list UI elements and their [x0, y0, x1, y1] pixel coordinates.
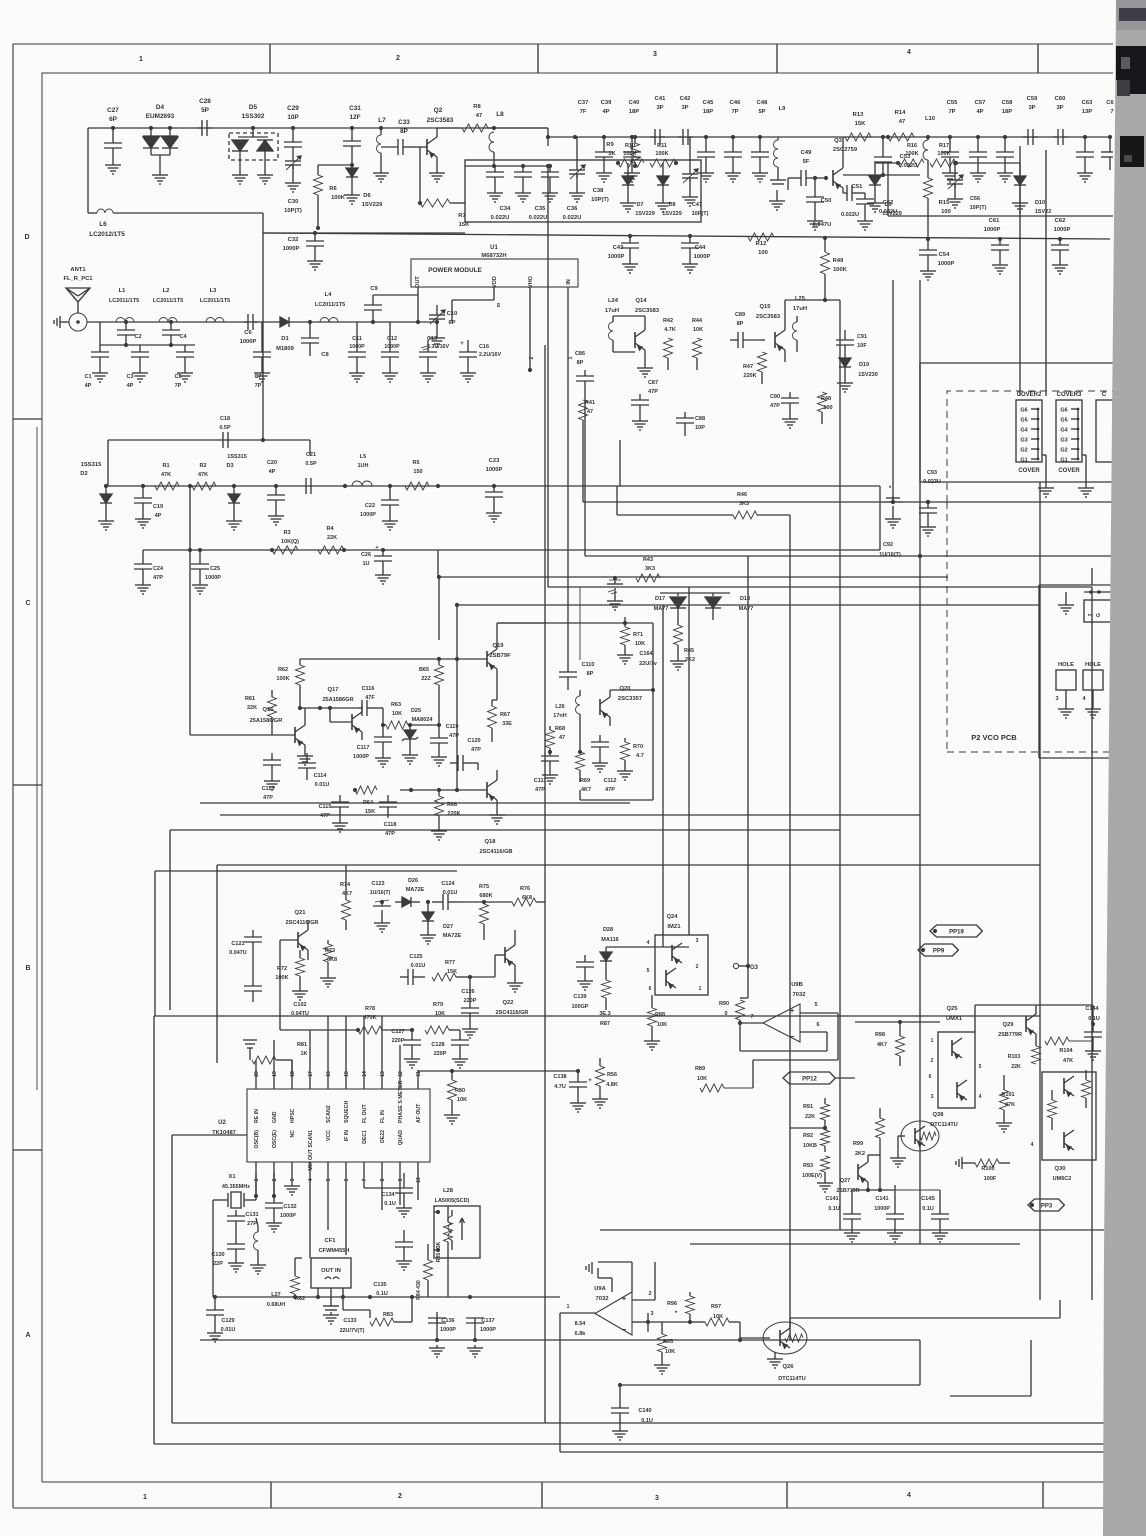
wire vert x155: [154, 871, 156, 1016]
svg-text:4.7U: 4.7U: [554, 1084, 566, 1090]
inner VCO solid box: [1039, 584, 1113, 586]
svg-text:MA72E: MA72E: [406, 887, 425, 893]
capacitor C49 series mid: [788, 177, 801, 179]
svg-text:MIX OUT SCAN1: MIX OUT SCAN1: [308, 1130, 314, 1171]
svg-text:C6: C6: [244, 330, 252, 336]
svg-text:C6: C6: [1106, 100, 1114, 106]
svg-text:C61: C61: [989, 218, 1000, 224]
svg-text:PP19: PP19: [949, 929, 964, 935]
wire C92 feed vertical: [892, 280, 894, 502]
svg-text:1000P: 1000P: [984, 227, 1001, 233]
svg-text:VDD: VDD: [492, 276, 498, 288]
svg-text:0.01U: 0.01U: [315, 782, 330, 788]
wire vco vertical right: [1091, 568, 1093, 585]
svg-text:0.1U: 0.1U: [828, 1206, 840, 1212]
top ruler divider ticks: [269, 44, 271, 73]
svg-text:R17: R17: [939, 143, 949, 149]
capacitor C4: [169, 320, 173, 324]
capacitor C60 series: [1053, 136, 1058, 138]
svg-text:3K3: 3K3: [645, 566, 655, 572]
wire big box bottom y1444: [154, 1443, 1104, 1445]
wire vert x217 box left: [216, 865, 218, 1063]
wire squelch rails: [382, 1029, 412, 1031]
svg-text:1000P: 1000P: [280, 1213, 296, 1219]
svg-text:D6: D6: [363, 193, 371, 199]
svg-text:2K2: 2K2: [855, 1151, 865, 1157]
svg-text:5: 5: [979, 1064, 982, 1070]
svg-text:+: +: [588, 1078, 592, 1084]
U2 pin3 ground: [291, 1183, 293, 1186]
svg-text:10: 10: [416, 1177, 422, 1183]
svg-text:R104: R104: [1059, 1048, 1073, 1054]
wire Q27 R99 link: [868, 1154, 880, 1156]
svg-text:G2: G2: [1060, 448, 1067, 454]
svg-text:UMX1: UMX1: [946, 1016, 963, 1022]
svg-text:6P: 6P: [109, 116, 118, 123]
capacitor C25: [199, 550, 201, 564]
svg-text:15: 15: [344, 1071, 350, 1077]
wire vert x689: [688, 587, 690, 935]
capacitor C22: [389, 486, 391, 500]
wire vert x545 long: [544, 345, 546, 623]
U2 pin 7 bottom: [363, 1162, 365, 1188]
scanner gray band at right edge: [1103, 0, 1146, 1536]
wire y1071 R80 C138 rail: [418, 1070, 578, 1072]
svg-text:6P: 6P: [448, 320, 455, 326]
svg-text:R5: R5: [412, 460, 419, 466]
capacitor C32: [314, 233, 316, 241]
svg-text:HOLE: HOLE: [1058, 662, 1074, 668]
svg-text:5P: 5P: [201, 107, 210, 114]
svg-text:R96: R96: [667, 1301, 677, 1307]
wire R6 top: [318, 164, 352, 166]
resistor R49: [823, 236, 827, 240]
svg-text:47P: 47P: [770, 403, 780, 409]
svg-text:R99: R99: [853, 1141, 863, 1147]
wire U9B loop: [753, 1059, 838, 1061]
svg-text:100F: 100F: [984, 1176, 997, 1182]
wire horiz y871: [155, 870, 457, 872]
svg-text:D2: D2: [80, 471, 87, 477]
svg-text:C1: C1: [84, 374, 91, 380]
wire vert x583: [582, 432, 584, 502]
wire bus y486 right tail: [619, 440, 621, 486]
gray band darker top area: [1116, 0, 1146, 30]
U2 pin 19 top: [273, 1040, 275, 1089]
svg-text:1000P: 1000P: [486, 467, 503, 473]
inductor L2: [159, 318, 177, 323]
resistor R9: [547, 137, 549, 146]
capacitor C48: [758, 135, 762, 139]
svg-text:L3: L3: [210, 288, 218, 294]
svg-text:C55: C55: [947, 100, 958, 106]
svg-text:10KB: 10KB: [803, 1143, 817, 1149]
svg-text:D19: D19: [859, 362, 869, 368]
svg-text:10P: 10P: [287, 114, 299, 121]
svg-text:1000P: 1000P: [353, 754, 369, 760]
svg-text:0.1U: 0.1U: [384, 1201, 396, 1207]
svg-text:2SC3583: 2SC3583: [427, 117, 454, 124]
wire big box x154: [153, 1016, 155, 1444]
svg-text:5P: 5P: [758, 109, 765, 115]
svg-text:C57: C57: [975, 100, 986, 106]
capacitor C11: [356, 322, 358, 352]
capacitor bank box C34 C35 C36: [465, 160, 701, 222]
capacitor C42 series: [678, 136, 683, 138]
svg-text:OUT IN: OUT IN: [321, 1268, 341, 1274]
svg-text:IF IN: IF IN: [344, 1130, 350, 1141]
svg-text:3: 3: [650, 1311, 653, 1317]
svg-text:100: 100: [758, 250, 768, 256]
svg-text:C42: C42: [680, 96, 691, 102]
svg-text:C18: C18: [220, 416, 230, 422]
svg-text:25A1586GR: 25A1586GR: [322, 697, 353, 703]
wire bottom rails: [619, 1384, 621, 1386]
svg-text:C25: C25: [210, 566, 220, 572]
svg-text:R6: R6: [329, 186, 337, 192]
svg-text:U9A: U9A: [594, 1286, 606, 1292]
svg-text:0.01U: 0.01U: [221, 1327, 236, 1333]
solid box around COVER connectors: [920, 363, 1113, 482]
bottom ruler divider ticks: [270, 1482, 272, 1508]
svg-text:COVER: COVER: [1058, 468, 1080, 474]
svg-text:LC2011/1T5: LC2011/1T5: [315, 302, 345, 308]
svg-text:2: 2: [1088, 613, 1094, 616]
svg-text:G4: G4: [1020, 428, 1028, 434]
svg-text:10P(T): 10P(T): [284, 208, 302, 214]
svg-text:C115: C115: [319, 804, 332, 810]
wire feedback line y440: [108, 439, 310, 441]
U2 pin 4 bottom: [309, 1162, 311, 1258]
svg-text:C16: C16: [479, 344, 489, 350]
wire COVER3 ground: [1082, 454, 1086, 456]
svg-text:C110: C110: [582, 662, 595, 668]
svg-text:3P: 3P: [681, 105, 688, 111]
svg-text:GND: GND: [272, 1111, 278, 1123]
resistor R15: [927, 172, 929, 178]
svg-text:Q20: Q20: [620, 686, 631, 692]
svg-text:G1: G1: [1020, 458, 1027, 464]
svg-text:R46: R46: [737, 492, 747, 498]
svg-text:C23: C23: [489, 458, 500, 464]
wire U1 IN down: [567, 287, 569, 390]
resistor R7: [420, 199, 450, 207]
svg-text:33E: 33E: [502, 721, 512, 727]
svg-text:D7: D7: [636, 202, 643, 208]
svg-text:C132: C132: [283, 1204, 296, 1210]
svg-text:POWER MODULE: POWER MODULE: [428, 267, 482, 274]
svg-text:Q18: Q18: [485, 839, 497, 845]
svg-text:D8: D8: [668, 202, 675, 208]
inductor L30 osc coil: [254, 1232, 259, 1250]
svg-text:QUAD: QUAD: [398, 1130, 404, 1146]
svg-text:C26: C26: [361, 552, 371, 558]
svg-text:L24: L24: [608, 298, 619, 304]
svg-text:47K: 47K: [1063, 1058, 1073, 1064]
svg-text:10P(T): 10P(T): [970, 205, 987, 211]
svg-text:12: 12: [398, 1071, 404, 1077]
svg-text:22U/7v: 22U/7v: [639, 661, 658, 667]
capacitor C29: [291, 126, 295, 130]
svg-text:L5: L5: [360, 454, 366, 460]
svg-text:MA8024: MA8024: [412, 717, 434, 723]
svg-text:18: 18: [290, 1071, 296, 1077]
svg-text:R68: R68: [555, 726, 565, 732]
svg-text:C2: C2: [134, 334, 141, 340]
capacitor C13 electrolytic: [427, 340, 429, 352]
svg-text:0.047U: 0.047U: [813, 222, 832, 228]
capacitor C1: [99, 345, 101, 352]
svg-text:C50: C50: [821, 198, 832, 204]
svg-text:C: C: [25, 600, 30, 607]
svg-text:R49: R49: [833, 258, 844, 264]
svg-text:HOLE: HOLE: [1085, 662, 1101, 668]
svg-text:2SC4116/GB: 2SC4116/GB: [480, 849, 513, 855]
wire left drop to L6: [87, 128, 89, 213]
svg-text:R4: R4: [326, 526, 334, 532]
capacitor C19: [142, 486, 144, 498]
svg-text:C138: C138: [553, 1074, 566, 1080]
svg-text:2: 2: [396, 55, 400, 62]
svg-text:C133: C133: [343, 1318, 356, 1324]
svg-text:7032: 7032: [793, 992, 806, 998]
wire Q20 enclosure: [625, 622, 653, 624]
svg-text:C10: C10: [447, 311, 458, 317]
svg-text:7P: 7P: [255, 383, 262, 389]
svg-text:C7: C7: [254, 374, 261, 380]
U2 pin7 wire to C134: [364, 1187, 395, 1189]
svg-text:1000P: 1000P: [205, 575, 221, 581]
svg-text:1000P: 1000P: [360, 512, 376, 518]
svg-text:PP12: PP12: [802, 1076, 817, 1082]
svg-text:3: 3: [1055, 696, 1058, 702]
resistor R8 series: [462, 124, 488, 132]
svg-text:4P: 4P: [602, 109, 609, 115]
svg-text:10K: 10K: [635, 641, 645, 647]
U2 pin 12 top: [399, 1045, 401, 1089]
svg-text:47P: 47P: [471, 747, 481, 753]
svg-text:3: 3: [653, 51, 657, 58]
svg-text:100GP: 100GP: [572, 1004, 589, 1010]
capacitor C61: [998, 237, 1002, 241]
svg-text:22U/7V(T): 22U/7V(T): [340, 1328, 365, 1334]
svg-text:2: 2: [648, 1291, 651, 1297]
svg-text:+: +: [460, 341, 464, 347]
svg-text:19: 19: [272, 1071, 278, 1077]
svg-text:U1: U1: [490, 245, 498, 251]
svg-text:8.54: 8.54: [575, 1321, 587, 1327]
svg-text:D4: D4: [156, 104, 165, 111]
flag PP19: [933, 929, 937, 933]
U9A feedback box: [631, 1262, 633, 1292]
U2 pin 11 top: [417, 1070, 419, 1089]
capacitor C59 series: [1023, 136, 1028, 138]
U9A ground top: [597, 1268, 599, 1278]
svg-text:22K: 22K: [805, 1114, 815, 1120]
svg-text:L7: L7: [378, 117, 386, 124]
node VG3: [733, 963, 738, 968]
svg-text:18P: 18P: [629, 109, 639, 115]
svg-text:C44: C44: [695, 245, 706, 251]
svg-text:Q14: Q14: [636, 298, 648, 304]
svg-text:L6: L6: [99, 221, 107, 228]
svg-text:MA77: MA77: [654, 606, 669, 612]
svg-text:IN: IN: [566, 279, 572, 285]
svg-text:47K: 47K: [1005, 1102, 1015, 1108]
svg-text:C117: C117: [357, 745, 370, 751]
svg-text:C63: C63: [1082, 100, 1093, 106]
capacitor C53: [882, 162, 884, 175]
svg-text:1000P: 1000P: [240, 339, 257, 345]
svg-text:C54: C54: [939, 252, 950, 258]
scan blob tail: [1117, 80, 1130, 96]
transistor Q2: [415, 146, 427, 148]
svg-text:R75: R75: [479, 884, 489, 890]
scan blob top bar: [1119, 8, 1146, 21]
svg-text:R101: R101: [1001, 1092, 1014, 1098]
scan blob square mid: [1120, 136, 1144, 167]
svg-text:HPSC: HPSC: [290, 1108, 296, 1123]
svg-text:C9: C9: [370, 286, 378, 292]
svg-text:C128: C128: [431, 1042, 444, 1048]
svg-text:L8: L8: [496, 111, 504, 118]
transistor Q3: [832, 170, 834, 186]
svg-text:10K: 10K: [693, 327, 703, 333]
wire audio connects: [606, 946, 689, 948]
svg-text:D10: D10: [1035, 200, 1045, 206]
svg-text:RE IN: RE IN: [254, 1109, 260, 1123]
svg-text:18P: 18P: [703, 109, 713, 115]
diode D1 series: [280, 317, 289, 327]
svg-text:100K: 100K: [937, 151, 950, 157]
svg-text:C34: C34: [500, 206, 511, 212]
svg-text:14: 14: [362, 1071, 368, 1077]
svg-text:C135: C135: [373, 1282, 386, 1288]
svg-text:22Z: 22Z: [421, 676, 431, 682]
svg-text:D1: D1: [281, 336, 289, 342]
svg-text:6: 6: [929, 1074, 932, 1080]
svg-text:8P: 8P: [577, 360, 584, 366]
svg-text:MA116: MA116: [601, 937, 618, 943]
svg-text:CF1: CF1: [325, 1238, 337, 1244]
svg-text:D3: D3: [226, 463, 233, 469]
svg-text:R3: R3: [283, 530, 290, 536]
inductor L1: [116, 318, 134, 323]
wire rail y708: [300, 707, 358, 709]
svg-text:C88: C88: [695, 416, 705, 422]
svg-text:4.7: 4.7: [636, 753, 644, 759]
svg-text:L4: L4: [325, 292, 333, 298]
U2 pin 16 top: [327, 1016, 329, 1089]
flag PP9: [921, 948, 925, 952]
wire L8 bottom rail: [465, 165, 548, 167]
svg-text:47P: 47P: [648, 389, 658, 395]
svg-text:C8: C8: [321, 352, 329, 358]
wire vert x438-439: [438, 577, 440, 640]
svg-text:P2 VCO PCB: P2 VCO PCB: [971, 733, 1017, 742]
svg-text:7: 7: [1110, 109, 1113, 115]
svg-text:45.355MHz: 45.355MHz: [222, 1184, 250, 1190]
svg-text:C47: C47: [692, 202, 702, 208]
svg-text:C131: C131: [245, 1212, 258, 1218]
svg-text:4P: 4P: [976, 109, 983, 115]
svg-text:C39: C39: [601, 100, 612, 106]
svg-text:4: 4: [1031, 1142, 1034, 1148]
svg-text:SQUECH: SQUECH: [344, 1101, 350, 1123]
svg-text:47P: 47P: [153, 575, 163, 581]
svg-text:U2: U2: [218, 1120, 226, 1126]
svg-text:C20: C20: [267, 460, 277, 466]
svg-text:10P: 10P: [695, 425, 705, 431]
svg-text:Q26: Q26: [783, 1364, 795, 1370]
svg-text:R71: R71: [633, 632, 643, 638]
svg-text:10K: 10K: [435, 1011, 445, 1017]
svg-text:220K: 220K: [447, 811, 460, 817]
capacitor C31 shunt: [350, 126, 354, 130]
capacitor C64 edge: [1108, 135, 1112, 139]
U2 pin 3 bottom: [291, 1162, 293, 1183]
svg-text:47: 47: [559, 735, 565, 741]
svg-text:1: 1: [143, 1494, 147, 1501]
svg-text:18P: 18P: [1002, 109, 1012, 115]
svg-text:2SC3583: 2SC3583: [756, 314, 781, 320]
svg-text:C114: C114: [314, 773, 328, 779]
svg-text:C38: C38: [593, 188, 604, 194]
svg-text:Q25: Q25: [947, 1006, 959, 1012]
svg-text:0.022U: 0.022U: [841, 212, 859, 218]
svg-text:3P: 3P: [1028, 105, 1035, 111]
svg-text:47: 47: [587, 409, 593, 415]
svg-text:L10: L10: [925, 116, 935, 122]
wire U1 VHO down: [529, 287, 531, 370]
svg-text:100K: 100K: [833, 267, 848, 273]
svg-text:47P: 47P: [449, 733, 459, 739]
capacitor C3: [139, 345, 141, 352]
svg-text:0.022U: 0.022U: [563, 215, 582, 221]
wire R16 R17 rail: [875, 162, 898, 164]
diode D9: [874, 163, 876, 176]
svg-text:R98: R98: [875, 1032, 885, 1038]
svg-text:R89: R89: [695, 1066, 705, 1072]
wire bus y550: [143, 549, 880, 551]
svg-text:TK10487: TK10487: [212, 1130, 236, 1136]
svg-text:B65: B65: [419, 667, 429, 673]
svg-text:22K: 22K: [247, 705, 257, 711]
svg-text:D17: D17: [655, 596, 665, 602]
svg-text:G6: G6: [1020, 408, 1027, 414]
svg-text:1: 1: [568, 356, 574, 359]
svg-text:C22: C22: [365, 503, 375, 509]
svg-text:R70: R70: [633, 744, 643, 750]
wire vert x840: [839, 300, 841, 1230]
svg-text:1SS302: 1SS302: [242, 113, 265, 120]
svg-text:22K: 22K: [1011, 1064, 1021, 1070]
svg-text:C21: C21: [306, 452, 316, 458]
svg-text:Q3: Q3: [834, 138, 843, 144]
svg-text:220P: 220P: [392, 1038, 405, 1044]
svg-text:m: m: [496, 302, 502, 307]
wire cover feed 2: [1045, 150, 1047, 396]
svg-text:C91: C91: [857, 334, 867, 340]
svg-text:C139: C139: [573, 994, 586, 1000]
svg-text:100K: 100K: [276, 676, 289, 682]
svg-text:100E(V): 100E(V): [802, 1173, 822, 1179]
wire vert x170: [169, 830, 171, 1010]
svg-text:7032: 7032: [596, 1296, 609, 1302]
svg-text:2SC3357: 2SC3357: [618, 696, 642, 702]
connector COVER4 box edge: [1096, 400, 1113, 462]
variable capacitor C30: [292, 157, 294, 161]
